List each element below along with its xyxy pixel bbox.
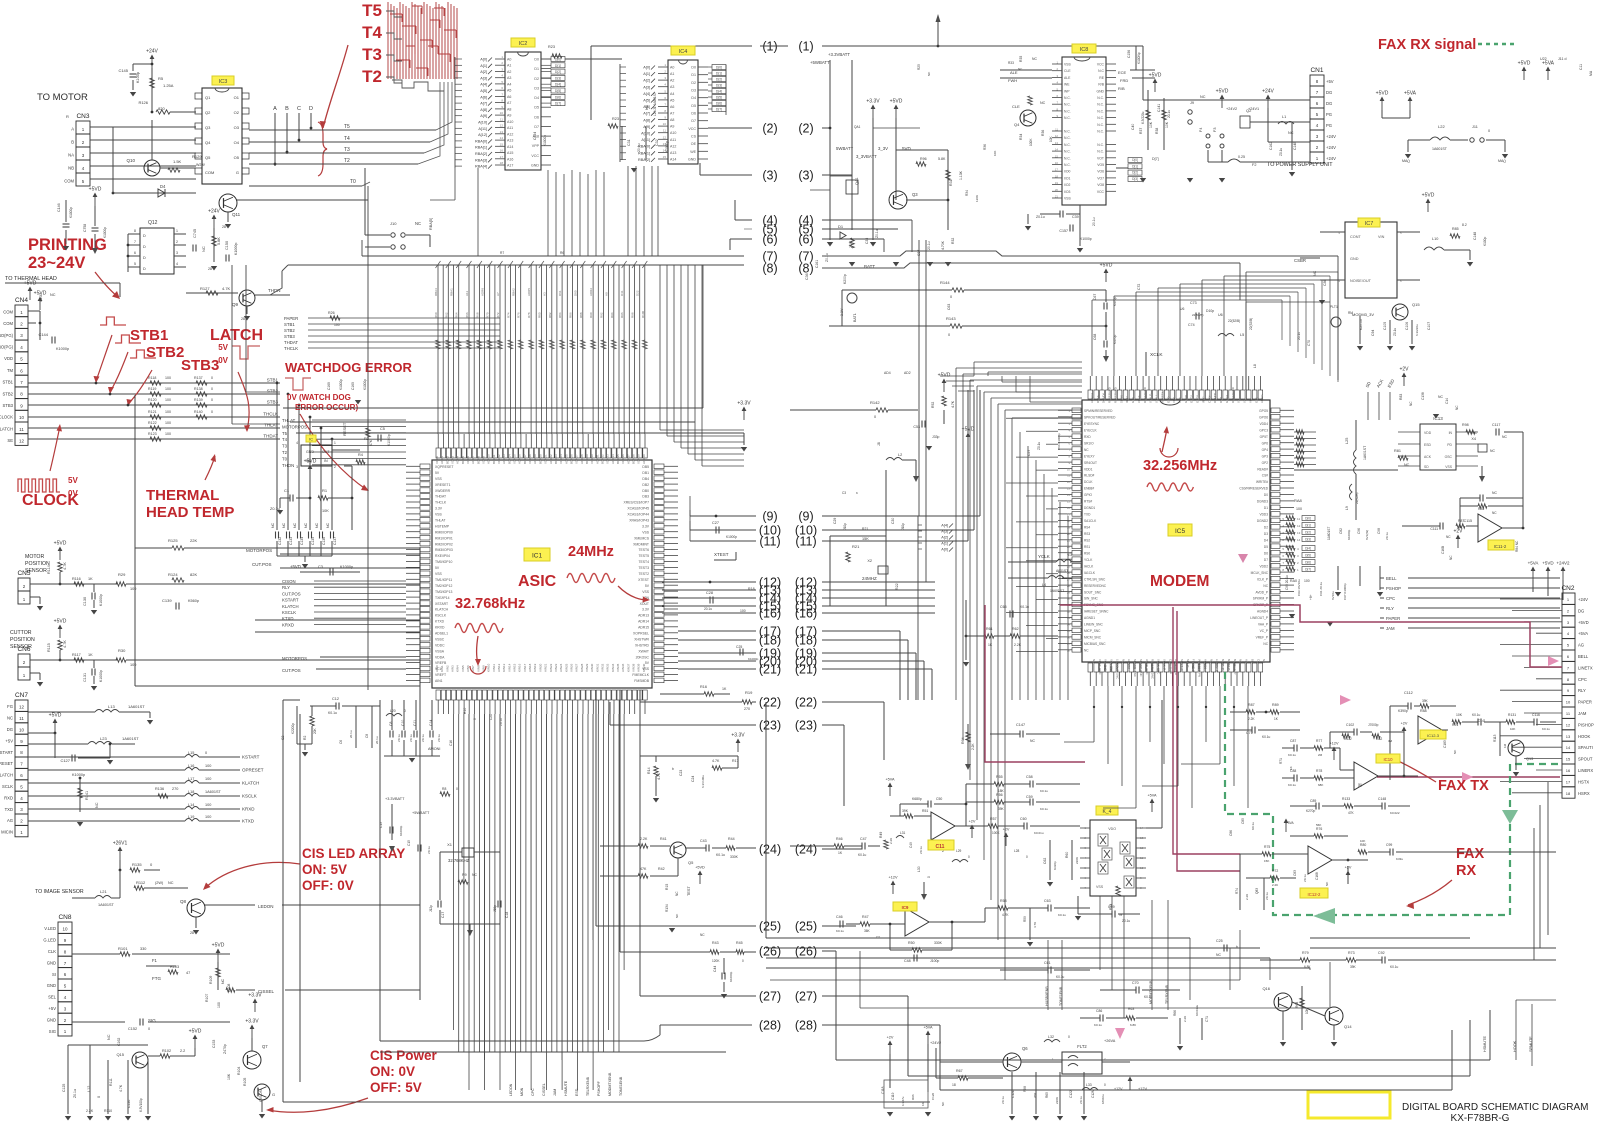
svg-text:+5VD: +5VD [212, 943, 225, 949]
svg-text:5: 5 [134, 262, 136, 266]
svg-text:A17: A17 [507, 164, 513, 168]
svg-text:DVAA: DVAA [1096, 395, 1100, 403]
svg-text:IRQ1: IRQ1 [1202, 396, 1206, 403]
svg-text:14: 14 [663, 148, 667, 152]
svg-text:C17: C17 [441, 912, 445, 918]
svg-text:VDD1: VDD1 [1084, 467, 1093, 471]
svg-text:C133: C133 [289, 537, 293, 545]
svg-text:C31: C31 [627, 139, 631, 146]
svg-text:VO5: VO5 [1097, 163, 1104, 167]
svg-text:R127: R127 [200, 286, 210, 291]
svg-text:K200p: K200p [843, 274, 847, 284]
svg-text:D2: D2 [691, 81, 696, 85]
svg-text:NC: NC [415, 221, 421, 226]
svg-text:N.C.: N.C. [1097, 116, 1104, 120]
svg-text:XDR3: XDR3 [451, 456, 455, 464]
svg-text:12: 12 [663, 135, 667, 139]
svg-text:A[6]: A[6] [480, 95, 487, 99]
svg-text:IC3: IC3 [219, 79, 228, 85]
svg-text:K0.1u: K0.1u [1040, 789, 1048, 793]
svg-text:ADR34: ADR34 [611, 454, 615, 464]
svg-text:C162: C162 [1269, 142, 1273, 150]
svg-text:C144: C144 [38, 332, 48, 337]
svg-text:C745: C745 [193, 229, 197, 238]
svg-text:22: 22 [1067, 545, 1071, 549]
svg-text:C132: C132 [278, 537, 282, 545]
svg-text:12: 12 [1297, 524, 1301, 528]
svg-text:L20: L20 [390, 709, 396, 713]
svg-text:20.1u: 20.1u [349, 730, 353, 738]
svg-text:STB2: STB2 [284, 328, 295, 333]
svg-text:BDR26: BDR26 [569, 454, 573, 464]
svg-text:CS0/R#RESERVED: CS0/R#RESERVED [1239, 487, 1268, 491]
svg-text:XDR24: XDR24 [559, 454, 563, 464]
svg-text:120K: 120K [712, 959, 720, 963]
svg-text:A[3]: A[3] [643, 85, 650, 89]
svg-text:18: 18 [952, 1083, 956, 1087]
svg-text:VIN32: VIN32 [601, 663, 605, 672]
svg-text:STB2: STB2 [3, 391, 14, 396]
svg-text:CONT: CONT [1350, 235, 1361, 239]
svg-text:CISON: CISON [282, 579, 296, 584]
svg-text:XRES/CS3/IOP7: XRES/CS3/IOP7 [624, 501, 650, 505]
svg-text:C157: C157 [1059, 229, 1068, 233]
svg-text:KSTART: KSTART [282, 598, 299, 603]
svg-text:D[0]: D[0] [1132, 158, 1138, 162]
svg-text:R120: R120 [148, 398, 157, 402]
svg-text:R66: R66 [1173, 1010, 1177, 1016]
svg-text:1: 1 [176, 229, 178, 233]
svg-text:C28: C28 [706, 591, 713, 595]
svg-text:A6: A6 [670, 105, 674, 109]
svg-text:0V (WATCH DOG: 0V (WATCH DOG [287, 393, 351, 402]
svg-text:K0.1u: K0.1u [1058, 913, 1066, 917]
svg-text:A7: A7 [496, 292, 500, 296]
svg-text:RESERVED: RESERVED [1114, 387, 1118, 403]
svg-text:A11: A11 [670, 138, 676, 142]
svg-text:C71: C71 [1205, 1016, 1209, 1022]
svg-text:VIN5: VIN5 [461, 665, 465, 672]
svg-text:R98: R98 [1462, 423, 1469, 427]
svg-text:N.C.: N.C. [1097, 123, 1104, 127]
svg-text:THLAT: THLAT [264, 423, 278, 428]
svg-text:XDR36: XDR36 [621, 454, 625, 464]
svg-text:FMEMCLK: FMEMCLK [632, 673, 649, 677]
svg-text:1K: 1K [838, 851, 843, 855]
svg-text:+2V: +2V [1453, 529, 1463, 535]
svg-text:Z0.1u: Z0.1u [919, 846, 923, 854]
svg-text:BDR8: BDR8 [476, 456, 480, 464]
svg-text:FAX RX signal: FAX RX signal [1378, 37, 1476, 53]
svg-text:Q2: Q2 [205, 110, 211, 115]
svg-text:2.2K: 2.2K [1245, 894, 1249, 900]
svg-text:TXD: TXD [1084, 513, 1091, 517]
svg-text:KTXD: KTXD [435, 620, 445, 624]
svg-text:(9): (9) [762, 510, 777, 524]
svg-text:CTRLSN_SNC: CTRLSN_SNC [1084, 577, 1106, 581]
svg-text:C152: C152 [128, 1027, 137, 1031]
svg-text:+5VD: +5VD [49, 713, 62, 719]
svg-text:C99: C99 [1386, 843, 1392, 847]
svg-text:10K: 10K [1165, 121, 1169, 128]
svg-text:K1000p: K1000p [56, 347, 69, 351]
svg-text:+5VD: +5VD [1376, 91, 1389, 97]
svg-text:IA1CLK: IA1CLK [1084, 571, 1096, 575]
svg-text:BDR29: BDR29 [585, 454, 589, 464]
svg-text:10: 10 [62, 927, 68, 932]
svg-text:4.7K: 4.7K [222, 286, 231, 291]
svg-text:TO POWER SUPPLY UNIT: TO POWER SUPPLY UNIT [1267, 162, 1333, 168]
svg-text:RX: RX [1456, 863, 1476, 879]
svg-text:KIN25: KIN25 [564, 663, 568, 672]
svg-text:+3.3V: +3.3V [245, 1019, 259, 1025]
svg-text:GP4: GP4 [1262, 448, 1269, 452]
svg-text:ADR22: ADR22 [549, 454, 553, 464]
svg-text:120K: 120K [975, 195, 979, 202]
svg-text:Q13: Q13 [1526, 757, 1533, 761]
svg-text:6.3V100u: 6.3V100u [701, 775, 705, 788]
svg-text:R111: R111 [109, 1078, 113, 1086]
svg-text:Q3: Q3 [912, 192, 918, 197]
svg-text:K1000p: K1000p [103, 227, 107, 238]
svg-text:L31: L31 [900, 831, 906, 835]
svg-text:C16: C16 [449, 740, 453, 746]
svg-text:L21: L21 [100, 889, 107, 894]
svg-text:C39: C39 [1072, 215, 1079, 219]
svg-text:R9: R9 [462, 873, 467, 877]
svg-text:R50: R50 [908, 941, 915, 945]
svg-text:D1: D1 [1264, 506, 1268, 510]
svg-text:XMDMINT: XMDMINT [633, 542, 649, 546]
svg-text:20.1u: 20.1u [704, 607, 712, 611]
svg-text:Z0.1u: Z0.1u [1265, 892, 1269, 900]
svg-text:GND: GND [1096, 89, 1104, 93]
svg-text:RM3/IOP03: RM3/IOP03 [435, 548, 453, 552]
svg-text:C83: C83 [1293, 870, 1297, 876]
svg-text:RLSD#: RLSD# [1084, 474, 1095, 478]
svg-text:D[3]: D[3] [1132, 177, 1138, 181]
svg-text:18: 18 [1067, 519, 1071, 523]
svg-text:O4: O4 [234, 140, 240, 145]
svg-text:ESD: ESD [1424, 443, 1432, 447]
svg-text:Q12: Q12 [148, 220, 158, 226]
svg-text:A[9]: A[9] [643, 125, 650, 129]
svg-text:GP1: GP1 [1254, 397, 1258, 403]
svg-text:R65: R65 [1045, 1092, 1049, 1098]
svg-text:XSTART: XSTART [435, 602, 448, 606]
svg-text:C62: C62 [1043, 858, 1047, 864]
svg-text:AIN33: AIN33 [606, 663, 610, 672]
svg-text:14: 14 [500, 136, 504, 140]
svg-text:WATCHDOG ERROR: WATCHDOG ERROR [285, 360, 412, 375]
svg-text:+5VD: +5VD [290, 564, 301, 569]
svg-text:D[5]: D[5] [555, 89, 561, 93]
svg-text:RBA[0]: RBA[0] [638, 145, 650, 149]
svg-text:THCLK: THCLK [435, 501, 447, 505]
svg-text:RESERVEDNC: RESERVEDNC [1084, 584, 1107, 588]
svg-text:Z0.1u: Z0.1u [1393, 328, 1397, 336]
svg-text:VCC: VCC [688, 127, 696, 131]
svg-text:CISON: CISON [258, 1089, 263, 1102]
svg-text:DGND3: DGND3 [1257, 500, 1268, 504]
svg-text:(11): (11) [795, 535, 816, 549]
svg-text:+24V: +24V [146, 49, 158, 55]
svg-text:4.7K: 4.7K [63, 640, 67, 648]
svg-text:+24V: +24V [1326, 134, 1336, 139]
svg-text:DB2: DB2 [642, 483, 649, 487]
svg-text:THDAT: THDAT [263, 434, 278, 439]
svg-text:C92: C92 [1378, 951, 1385, 955]
svg-text:R57: R57 [990, 817, 997, 821]
svg-text:14: 14 [1566, 745, 1571, 750]
svg-text:22K: 22K [190, 538, 197, 543]
svg-text:WE: WE [1064, 83, 1070, 87]
svg-text:39K: 39K [902, 809, 909, 813]
svg-text:AGND: AGND [1260, 395, 1264, 403]
svg-text:F1: F1 [152, 958, 158, 963]
svg-text:JAM: JAM [1386, 626, 1395, 631]
svg-text:ADR7: ADR7 [471, 456, 475, 464]
svg-text:29: 29 [1067, 590, 1071, 594]
svg-text:R118: R118 [148, 376, 156, 380]
svg-text:C11: C11 [1579, 64, 1583, 70]
svg-text:C122: C122 [1069, 1090, 1073, 1098]
svg-text:4.7K: 4.7K [1002, 913, 1009, 917]
svg-text:J18p: J18p [493, 905, 497, 912]
svg-text:C168: C168 [1315, 872, 1319, 880]
svg-text:330K: 330K [730, 855, 739, 859]
svg-text:36: 36 [1067, 636, 1071, 640]
svg-text:D1: D1 [838, 224, 844, 229]
svg-text:STB1: STB1 [284, 322, 295, 327]
svg-text:R1: R1 [322, 488, 328, 493]
svg-text:TEST6: TEST6 [638, 548, 649, 552]
svg-text:17: 17 [1055, 168, 1059, 172]
svg-text:(26): (26) [795, 945, 817, 959]
svg-text:O3: O3 [234, 125, 240, 130]
svg-text:100: 100 [165, 376, 171, 380]
svg-text:23~24V: 23~24V [28, 254, 85, 272]
svg-text:R81: R81 [1394, 449, 1401, 453]
svg-text:b: b [672, 767, 674, 771]
svg-text:A3: A3 [507, 76, 511, 80]
svg-text:Q11: Q11 [232, 212, 241, 217]
svg-text:L17: L17 [188, 777, 194, 781]
svg-text:A13: A13 [507, 139, 513, 143]
svg-text:O5: O5 [234, 155, 240, 160]
svg-text:JAM: JAM [1578, 711, 1587, 716]
svg-text:O2: O2 [234, 110, 240, 115]
svg-text:21: 21 [1055, 195, 1059, 199]
svg-text:13: 13 [1067, 487, 1071, 491]
svg-text:A5: A5 [670, 98, 674, 102]
svg-text:C70: C70 [1307, 340, 1311, 346]
svg-text:THCLK: THCLK [263, 412, 278, 417]
svg-text:RBA4: RBA4 [434, 288, 438, 296]
svg-text:D: D [143, 234, 146, 238]
svg-text:VIN14: VIN14 [507, 663, 511, 672]
svg-text:13: 13 [500, 130, 504, 134]
svg-text:NC: NC [1200, 95, 1206, 99]
svg-text:DIGITAL BOARD SCHEMATIC DIAGRA: DIGITAL BOARD SCHEMATIC DIAGRAM [1402, 1102, 1589, 1113]
svg-text:VIN17: VIN17 [523, 663, 527, 672]
svg-text:HSRX: HSRX [1578, 791, 1590, 796]
svg-text:K0.1u: K0.1u [1288, 783, 1296, 787]
svg-text:1A601ST: 1A601ST [128, 704, 145, 709]
svg-text:NO(PG): NO(PG) [0, 345, 14, 350]
svg-text:XDR0: XDR0 [435, 456, 439, 464]
svg-text:SD: SD [1424, 465, 1429, 469]
svg-text:K0.1u: K0.1u [1472, 713, 1481, 717]
svg-text:A[4]: A[4] [941, 524, 948, 528]
svg-text:XDR18: XDR18 [528, 454, 532, 464]
svg-text:L24/J1 1A601ST: L24/J1 1A601ST [653, 92, 657, 116]
svg-text:CN3: CN3 [76, 113, 89, 120]
svg-text:R85: R85 [1452, 227, 1459, 231]
svg-text:SOUT_SNC: SOUT_SNC [1084, 590, 1102, 594]
svg-text:+5VA: +5VA [1578, 631, 1588, 636]
svg-text:100: 100 [130, 663, 136, 667]
svg-text:A[7]: A[7] [643, 112, 650, 116]
svg-text:10: 10 [19, 415, 25, 420]
svg-text:12: 12 [19, 439, 25, 444]
svg-text:R76: R76 [517, 312, 521, 318]
svg-text:CUT.POS: CUT.POS [282, 591, 301, 596]
svg-text:C24: C24 [691, 776, 695, 782]
svg-text:ASIC: ASIC [518, 573, 557, 590]
svg-text:NC: NC [7, 716, 13, 721]
svg-text:IC5: IC5 [1175, 528, 1186, 535]
svg-text:T5: T5 [282, 431, 288, 436]
svg-text:FAX: FAX [1456, 846, 1485, 862]
svg-text:+5V: +5V [5, 738, 13, 743]
svg-text:0: 0 [948, 333, 950, 337]
svg-text:J100p: J100p [930, 959, 939, 963]
svg-text:RBA[1]: RBA[1] [475, 146, 487, 150]
svg-text:C106: C106 [1405, 322, 1409, 330]
svg-text:CN1: CN1 [1310, 67, 1323, 74]
svg-text:NC: NC [1409, 401, 1413, 406]
svg-text:RLY: RLY [1578, 688, 1586, 693]
svg-text:1K: 1K [921, 1102, 925, 1106]
svg-text:HSTX: HSTX [1578, 779, 1589, 784]
svg-text:R29: R29 [118, 572, 126, 577]
svg-text:VO8: VO8 [1097, 183, 1104, 187]
svg-text:25: 25 [1067, 564, 1071, 568]
svg-text:0: 0 [211, 376, 213, 380]
svg-text:LINEOUT_P: LINEOUT_P [1250, 616, 1268, 620]
svg-text:10K: 10K [1049, 135, 1053, 142]
svg-text:J7000p: J7000p [1368, 723, 1379, 727]
svg-text:R84 NC: R84 NC [1515, 540, 1519, 552]
svg-text:KRXD: KRXD [435, 626, 445, 630]
svg-text:+5VA: +5VA [1147, 794, 1157, 798]
svg-text:SR1IO: SR1IO [1084, 441, 1094, 445]
svg-text:F2: F2 [1252, 163, 1256, 167]
svg-text:K0.01u: K0.01u [1034, 831, 1044, 835]
svg-text:15K: 15K [862, 537, 869, 541]
svg-text:20.1u: 20.1u [927, 241, 931, 250]
svg-text:R26: R26 [328, 311, 335, 315]
svg-text:20.1u: 20.1u [375, 736, 379, 744]
svg-text:R98: R98 [631, 312, 635, 318]
svg-text:NC: NC [1121, 659, 1125, 663]
svg-text:NO(PG): NO(PG) [0, 333, 14, 338]
svg-text:4.7K: 4.7K [712, 759, 720, 763]
svg-text:330K: 330K [934, 941, 943, 945]
svg-text:+2V: +2V [1401, 722, 1408, 726]
svg-text:D1: D1 [691, 73, 696, 77]
svg-text:K1000p: K1000p [69, 207, 73, 218]
svg-text:EYEXY: EYEXY [1084, 454, 1096, 458]
svg-text:AIN27: AIN27 [575, 663, 579, 672]
svg-text:N.C.: N.C. [1064, 103, 1071, 107]
svg-text:RBA[4]: RBA[4] [475, 165, 487, 169]
svg-text:47K: 47K [1348, 811, 1355, 815]
svg-text:CN4: CN4 [15, 297, 28, 304]
svg-text:SEL: SEL [48, 995, 57, 1000]
svg-text:IRQ2: IRQ2 [1125, 396, 1129, 403]
svg-text:B: B [285, 106, 289, 112]
svg-text:R59: R59 [1023, 916, 1027, 922]
svg-text:KRXD: KRXD [282, 622, 294, 627]
svg-text:MON: MON [520, 1087, 524, 1096]
svg-text:47K: 47K [369, 439, 373, 446]
svg-text:J10p: J10p [901, 523, 905, 530]
svg-text:VDD2: VDD2 [1259, 564, 1268, 568]
svg-text:NC: NC [675, 891, 679, 896]
svg-text:DB3: DB3 [642, 495, 649, 499]
svg-text:1.5K: 1.5K [173, 159, 182, 164]
svg-text:D: D [143, 267, 146, 271]
svg-text:C153: C153 [212, 1040, 216, 1048]
svg-text:C139: C139 [162, 598, 172, 603]
svg-text:NC: NC [1209, 659, 1213, 663]
svg-text:6.8K: 6.8K [1130, 1023, 1136, 1027]
svg-text:W2W: W2W [196, 163, 205, 167]
svg-text:Q1: Q1 [205, 95, 211, 100]
svg-text:R104: R104 [237, 1067, 241, 1075]
svg-text:STB3: STB3 [284, 334, 295, 339]
svg-text:7: 7 [134, 240, 136, 244]
svg-text:R37: R37 [1139, 128, 1143, 134]
svg-text:10K: 10K [1456, 713, 1463, 717]
svg-text:22(52/B): 22(52/B) [1355, 492, 1359, 504]
svg-text:LINERX: LINERX [1578, 768, 1593, 773]
svg-text:(1): (1) [798, 40, 813, 54]
svg-text:NC: NC [1040, 101, 1046, 105]
svg-text:Q5: Q5 [688, 860, 694, 865]
svg-text:AIN3: AIN3 [451, 665, 455, 672]
svg-text:D[6]: D[6] [555, 95, 561, 99]
svg-text:(21): (21) [759, 663, 781, 677]
svg-text:K390p: K390p [1398, 709, 1408, 713]
svg-text:XWDERR: XWDERR [435, 489, 451, 493]
svg-text:EYESYNC: EYESYNC [1084, 422, 1100, 426]
svg-text:C131: C131 [83, 673, 87, 682]
svg-text:A7: A7 [670, 112, 674, 116]
svg-text:R7: R7 [500, 251, 504, 255]
svg-text:CUT.POS: CUT.POS [282, 668, 301, 673]
svg-text:R77: R77 [1316, 739, 1322, 743]
svg-text:NB: NB [68, 165, 74, 170]
svg-text:Z0.1u: Z0.1u [1122, 919, 1130, 923]
svg-text:R82: R82 [548, 312, 552, 318]
svg-text:1A601ST: 1A601ST [1363, 446, 1367, 460]
svg-text:Z470p: Z470p [223, 1044, 227, 1054]
svg-text:A[10]: A[10] [641, 132, 650, 136]
svg-text:VIN11: VIN11 [492, 664, 496, 672]
